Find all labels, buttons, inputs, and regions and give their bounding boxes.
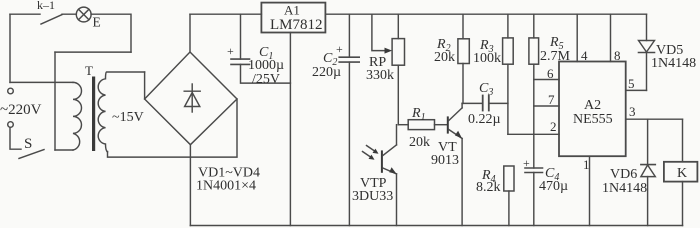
svg-text:+: +	[523, 156, 530, 170]
relay K	[682, 119, 684, 162]
terminal: 220V bottom	[8, 122, 14, 128]
resistor R1	[408, 120, 434, 130]
timer A2 NE555 box	[559, 62, 626, 157]
svg-text:8: 8	[614, 48, 621, 63]
potentiometer RP	[397, 14, 399, 38]
svg-text:S: S	[24, 136, 32, 152]
diode VD6	[647, 119, 649, 164]
svg-text:VD6: VD6	[610, 167, 637, 182]
wire: +12V output rail	[325, 13, 646, 15]
svg-text:5: 5	[628, 76, 635, 91]
regulator A1 box	[261, 3, 325, 33]
svg-text:T: T	[85, 63, 93, 78]
wire: bridge + up to rail	[189, 14, 191, 52]
RP wiper arrow	[372, 14, 386, 50]
svg-text:20k: 20k	[434, 50, 455, 65]
svg-text:3DU33: 3DU33	[352, 189, 393, 204]
svg-text:R1: R1	[411, 106, 426, 123]
bridge rectifier VD1~VD4	[145, 52, 237, 145]
wire: lamp return horizontal	[55, 51, 131, 53]
phototransistor VTP 3DU33	[396, 125, 398, 145]
bridge internal diode symbol	[191, 84, 193, 112]
svg-text:1N4148: 1N4148	[602, 181, 647, 196]
wire: k-1 feed	[10, 13, 40, 15]
svg-text:1000µ: 1000µ	[248, 58, 284, 73]
svg-text:E: E	[93, 15, 101, 30]
wire: left mains line from k-1 down to top terminal	[9, 14, 11, 82]
svg-text:9013: 9013	[431, 153, 459, 168]
svg-text:6: 6	[547, 66, 554, 81]
svg-text:~220V: ~220V	[0, 102, 42, 118]
capacitor C4	[533, 134, 535, 168]
transformer T primary winding	[73, 82, 82, 150]
capacitor C1	[240, 14, 242, 59]
wire: pin 4	[576, 14, 578, 61]
diode VD5	[646, 14, 648, 40]
resistor R4	[504, 166, 514, 191]
svg-text:1: 1	[583, 157, 590, 172]
capacitor C2	[348, 14, 350, 57]
svg-text:/25V: /25V	[252, 72, 280, 87]
svg-text:K: K	[677, 166, 687, 181]
svg-text:C3: C3	[479, 81, 493, 98]
svg-text:0.22µ: 0.22µ	[468, 112, 501, 127]
wire: +12V input rail	[190, 13, 261, 15]
transformer secondary winding	[98, 72, 144, 152]
svg-text:1N4001×4: 1N4001×4	[196, 179, 256, 194]
svg-text:8.2k: 8.2k	[476, 180, 501, 195]
capacitor C3	[462, 102, 482, 104]
wire: pin 6	[534, 79, 559, 81]
wire: bottom terminal down to S pivot	[10, 128, 21, 150]
svg-text:NE555: NE555	[573, 112, 613, 127]
svg-text:100k: 100k	[473, 51, 501, 66]
wire: A1 ground pin down to rail	[289, 33, 291, 226]
resistor R2	[462, 14, 464, 39]
svg-text:7: 7	[548, 92, 555, 107]
wire: bridge - down to ground rail	[189, 145, 191, 226]
wire: k-1 to lamp	[62, 13, 76, 15]
svg-text:A2: A2	[584, 98, 601, 113]
svg-text:2: 2	[550, 119, 557, 134]
svg-text:A1: A1	[284, 3, 300, 18]
resistor R5	[533, 14, 535, 38]
svg-text:~15V: ~15V	[112, 110, 144, 125]
wire: pin 8	[610, 14, 612, 61]
wire: vertical to S contact and primary bottom	[54, 52, 56, 150]
wire: 220V top terminal to primary top	[10, 81, 73, 83]
svg-text:+: +	[336, 42, 343, 56]
wire: pin 2	[508, 133, 559, 135]
svg-text:+: +	[227, 44, 234, 58]
svg-text:4: 4	[581, 48, 588, 63]
transformer core	[92, 77, 95, 152]
wire: pin 1	[589, 156, 591, 225]
VTP light arrows	[363, 152, 373, 159]
wire: lamp to right drop	[91, 14, 131, 52]
switch S blade	[19, 150, 44, 159]
wire: pin 7	[534, 105, 559, 107]
wire: pin 3	[626, 118, 683, 120]
terminal: 220V top	[8, 88, 14, 94]
wire: S contact foot to primary bottom	[55, 149, 73, 151]
wire: ground rail	[190, 225, 682, 227]
svg-text:LM7812: LM7812	[270, 17, 323, 33]
svg-text:1N4148: 1N4148	[651, 56, 696, 71]
switch k-1	[41, 15, 62, 24]
transistor VT 9013	[447, 116, 449, 133]
wire: pin 5	[626, 89, 647, 91]
resistor R3	[507, 14, 509, 38]
svg-text:3: 3	[629, 104, 636, 119]
svg-text:470µ: 470µ	[539, 179, 568, 194]
lamp E	[76, 7, 91, 22]
wire: secondary bottom to bridge right vertex	[108, 99, 238, 157]
svg-text:20k: 20k	[409, 135, 430, 150]
svg-text:330k: 330k	[366, 68, 394, 83]
svg-text:220µ: 220µ	[312, 65, 341, 80]
wire: secondary top to bridge left vertex	[144, 72, 146, 99]
svg-text:k–1: k–1	[37, 0, 55, 12]
